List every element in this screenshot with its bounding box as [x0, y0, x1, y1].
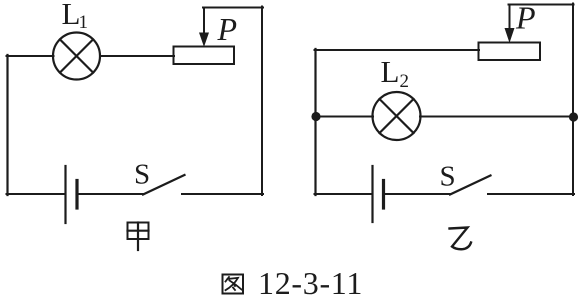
svg-text:L2: L2	[381, 54, 409, 92]
wire: circuit-甲 bottom horizontal right of switch	[182, 193, 263, 195]
wire: circuit-乙 right vertical	[572, 4, 574, 196]
wire: circuit-甲 right vertical	[261, 7, 263, 196]
wire: circuit-甲 top-left horizontal to lamp	[7, 55, 54, 57]
wire: circuit-甲 wiper top horizontal	[203, 7, 263, 9]
rheostat wiper arrow P (乙)	[505, 5, 514, 42]
junction dot right (乙)	[569, 112, 578, 121]
battery B-乙	[373, 166, 384, 222]
wire: circuit-乙 wiper top horizontal	[509, 4, 574, 6]
svg-text:L1: L1	[62, 0, 88, 33]
label 乙 (drawn glyph)	[450, 228, 472, 250]
wire: circuit-乙 battery to switch	[385, 193, 450, 195]
junction dot left (乙)	[311, 112, 320, 121]
battery B-甲	[66, 166, 78, 223]
wire: circuit-乙 branch left to lamp	[315, 116, 374, 118]
resistor (rheostat body) R-乙	[479, 43, 541, 61]
lamp L1	[53, 33, 100, 80]
wire: circuit-乙 top horizontal to rheostat	[315, 49, 480, 51]
wire: circuit-甲 bottom horizontal left of battery	[7, 193, 65, 195]
wire: circuit-乙 branch lamp to right vertical	[420, 116, 574, 118]
caption glyph 图 (drawn)	[223, 275, 244, 294]
wire: circuit-乙 bottom horizontal right of switch	[488, 193, 574, 195]
rheostat wiper arrow P (甲)	[200, 8, 209, 46]
wire: circuit-乙 bottom horizontal left of battery	[315, 193, 372, 195]
svg-text:S: S	[134, 159, 150, 191]
wire: circuit-甲 battery to switch	[79, 193, 144, 195]
wire: circuit-甲 left vertical	[6, 55, 8, 195]
svg-text:S: S	[440, 161, 456, 193]
svg-text:P: P	[217, 11, 238, 47]
wire: circuit-甲 lamp to rheostat	[100, 55, 174, 57]
lamp L2	[373, 92, 421, 140]
svg-text:12-3-11: 12-3-11	[258, 265, 363, 299]
wire: circuit-乙 left vertical	[314, 49, 316, 195]
label 甲 (drawn glyph)	[128, 223, 149, 251]
resistor (rheostat body) R-甲	[174, 47, 235, 65]
switch S (乙) blade	[450, 176, 491, 195]
switch S (甲) blade	[143, 175, 185, 195]
